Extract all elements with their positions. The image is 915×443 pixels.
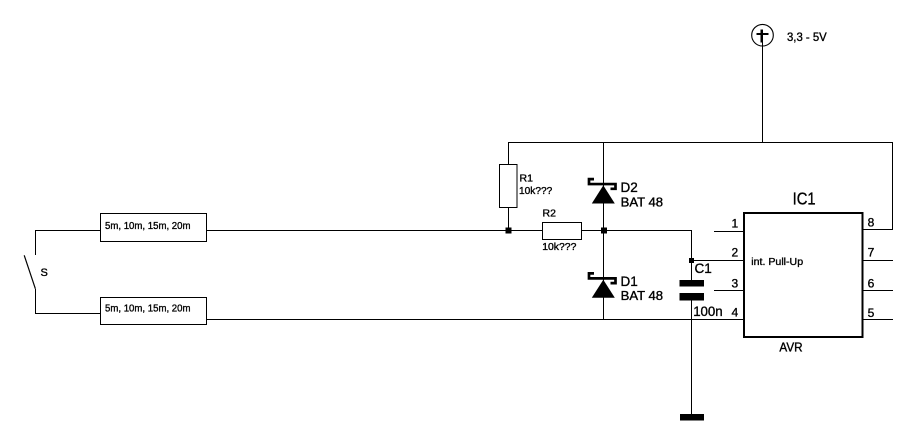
svg-text:IC1: IC1 (793, 188, 816, 208)
svg-text:3: 3 (732, 277, 739, 291)
svg-text:D2: D2 (621, 180, 638, 195)
capacitor C1 top plate (680, 280, 705, 287)
VCC plus sign vertical bar (761, 29, 763, 42)
wire: pin 3 stub (714, 290, 744, 291)
svg-text:AVR: AVR (779, 340, 802, 354)
svg-text:10k???: 10k??? (519, 185, 552, 197)
resistor R2 body (543, 223, 582, 240)
svg-text:10k???: 10k??? (542, 241, 576, 253)
capacitor C1 bottom plate (680, 293, 705, 301)
svg-text:D1: D1 (621, 274, 638, 289)
svg-text:3,3 - 5V: 3,3 - 5V (787, 30, 827, 44)
wire: right drop from top rail to pin 8 (892, 142, 893, 230)
ground symbol (680, 414, 704, 421)
cable box 1 (5m, 10m, 15m, 20m) (101, 214, 207, 242)
wire: VCC symbol drop to top rail (762, 42, 763, 142)
node: junction R1 / mid wire (506, 228, 512, 234)
svg-text:4: 4 (732, 306, 739, 320)
svg-text:R1: R1 (520, 172, 534, 184)
node: junction C1 / pin 2 (689, 258, 694, 263)
wire: R1 top lead (508, 142, 509, 165)
svg-text:R2: R2 (543, 208, 557, 220)
svg-text:5m, 10m, 15m, 20m: 5m, 10m, 15m, 20m (105, 302, 191, 314)
wire: pin 8 stub (863, 229, 893, 230)
cable box 2 (5m, 10m, 15m, 20m) (101, 298, 207, 325)
wire: R1 bottom lead (508, 207, 509, 231)
wire: bottom horizontal from cable box 2 to IC pin 4 (207, 319, 744, 320)
diode D1 schottky cathode bar (589, 273, 616, 283)
switch S blade (24, 255, 35, 288)
wire: pin 7 stub (863, 260, 893, 261)
wire: lower-left horizontal from switch to cable box 2 (35, 313, 101, 314)
svg-text:2: 2 (732, 246, 739, 260)
svg-text:BAT 48: BAT 48 (621, 289, 664, 303)
svg-text:8: 8 (868, 215, 875, 229)
diode D2 triangle (592, 185, 615, 203)
wire: pin 6 stub (863, 290, 893, 291)
svg-text:int. Pull-Up: int. Pull-Up (751, 256, 803, 268)
wire: switch lower terminal vertical (35, 289, 36, 314)
wire: pin 2 stub (691, 260, 744, 261)
svg-text:100n: 100n (693, 304, 723, 319)
svg-text:C1: C1 (695, 261, 712, 276)
svg-text:5m, 10m, 15m, 20m: 5m, 10m, 15m, 20m (105, 220, 191, 232)
svg-text:6: 6 (868, 276, 875, 290)
diode D1 triangle (592, 280, 615, 298)
wire: mid horizontal from R2 right to corner (581, 230, 692, 231)
wire: top supply rail horizontal (508, 142, 893, 143)
wire: vertical from C1 bottom to ground (691, 300, 692, 414)
svg-text:7: 7 (868, 246, 875, 260)
svg-text:S: S (41, 267, 48, 279)
node: junction diodes / mid wire (601, 228, 607, 234)
VCC plus sign horizontal bar (757, 33, 769, 35)
svg-text:1: 1 (732, 217, 739, 231)
wire: vertical through D2 and D1 (603, 142, 604, 320)
wire: upper-left horizontal from switch to cable box 1 (35, 230, 101, 231)
wire: pin 5 stub (863, 319, 893, 320)
wire: mid horizontal from cable box 1 to R2 left (207, 230, 543, 231)
IC U1 box (IC1) (744, 213, 863, 337)
wire: vertical from mid corner to C1 top (691, 230, 692, 281)
VCC supply circle (752, 24, 774, 46)
svg-text:BAT 48: BAT 48 (621, 196, 664, 210)
wire: pin 1 stub (714, 231, 744, 232)
wire: switch upper terminal vertical (35, 230, 36, 255)
svg-text:5: 5 (868, 306, 875, 320)
diode D2 schottky cathode bar (589, 179, 616, 189)
resistor R1 body (500, 165, 518, 208)
